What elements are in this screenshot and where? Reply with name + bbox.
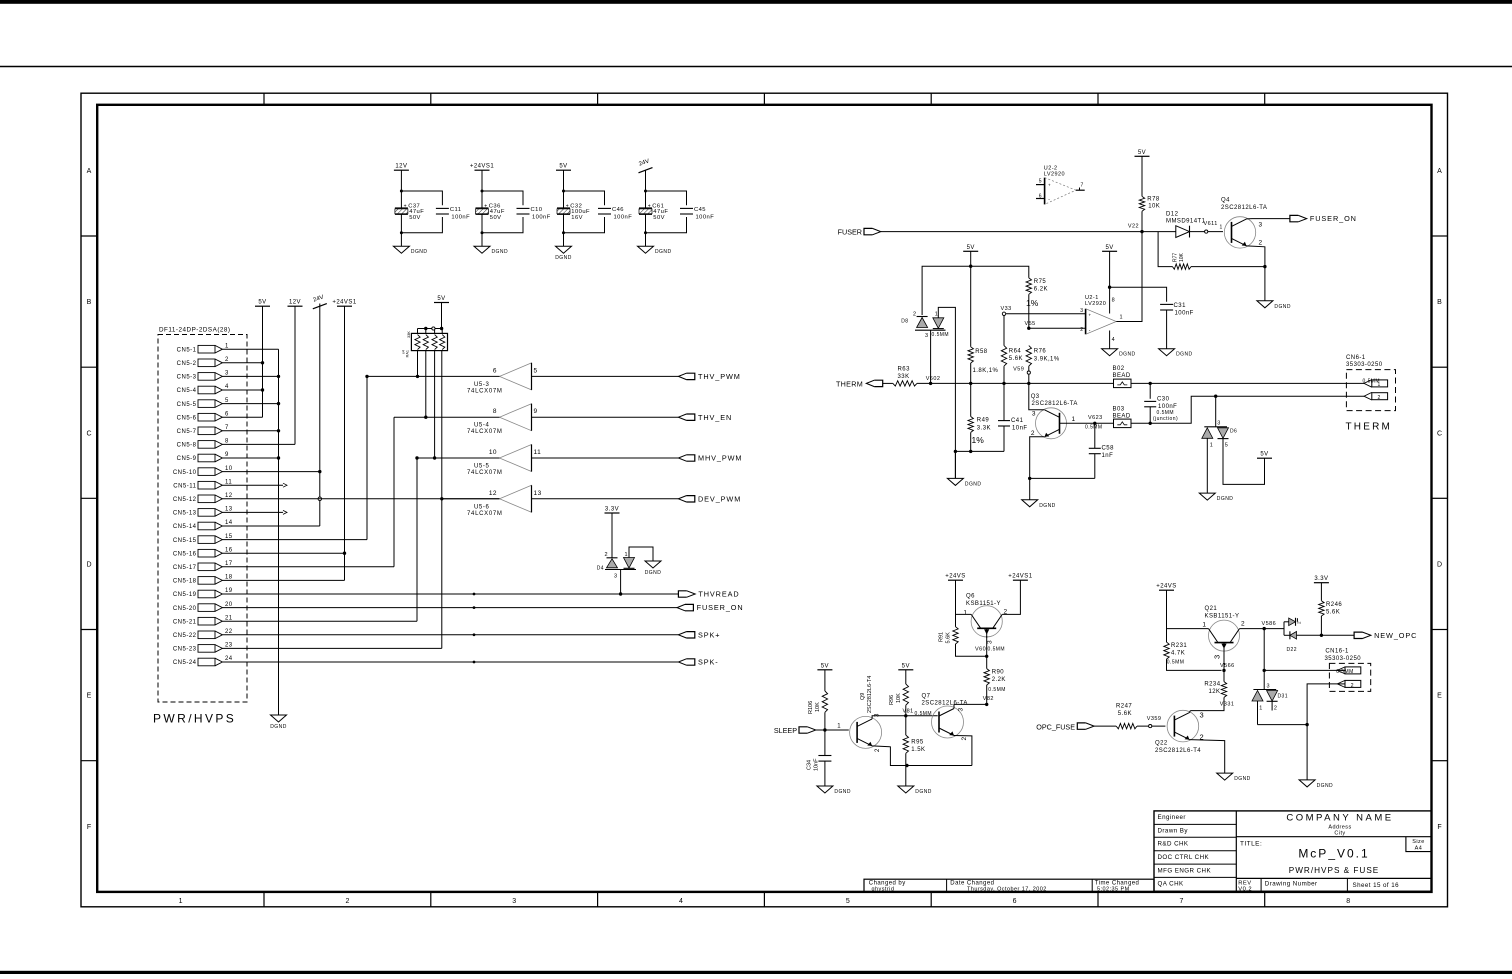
power rail +24VS1 (1008, 574, 1032, 581)
wire (Q9 emitter) (872, 746, 972, 767)
node V60 (975, 636, 1005, 669)
svg-text:R63: R63 (898, 367, 911, 373)
power rail 3.3V (605, 507, 620, 514)
svg-text:3.3K: 3.3K (977, 425, 991, 431)
power rail 5V (963, 245, 978, 252)
svg-text:D6: D6 (1230, 429, 1237, 435)
net THVREAD (222, 590, 739, 599)
wire (562, 214, 605, 246)
wire (400, 214, 443, 246)
svg-text:C: C (86, 430, 91, 437)
svg-text:2SC2812L6-TA: 2SC2812L6-TA (1032, 401, 1078, 407)
wire (922, 251, 1029, 315)
svg-text:6: 6 (1013, 898, 1017, 905)
svg-text:1%: 1% (1026, 298, 1039, 308)
wire (CN16 pin2 to ground) (1307, 684, 1337, 780)
wire (CN5-15 to U5-3 input) (222, 375, 368, 540)
svg-text:R64: R64 (1009, 349, 1022, 355)
svg-text:19: 19 (225, 588, 233, 594)
capacitor C32 100uF 16V (electrolytic) (557, 203, 590, 221)
svg-text:6: 6 (493, 367, 497, 374)
svg-text:100nF: 100nF (532, 215, 551, 221)
svg-text:5V: 5V (258, 300, 266, 306)
power rail 5V (255, 300, 270, 307)
wire (+24VS to Q6 base) (956, 580, 972, 614)
svg-text:V359: V359 (1147, 716, 1162, 722)
node (V59/Q3 junction) (1027, 382, 1030, 385)
svg-text:CN5-5: CN5-5 (177, 402, 197, 408)
svg-text:15: 15 (225, 534, 233, 540)
wire (Q9 collector to V81) (872, 716, 938, 719)
svg-text:1: 1 (179, 898, 183, 905)
wire (400, 170, 443, 208)
ground DGND (898, 766, 932, 796)
op-amp U2-1 LV2920 (1080, 251, 1123, 348)
resistor R76 3.9K 1% (1026, 346, 1060, 371)
wire (Q3 emitter to ground) (1028, 437, 1095, 500)
svg-text:3.3V: 3.3V (1314, 576, 1328, 582)
resistor R234 12K (1190, 681, 1226, 710)
node V331 (1220, 702, 1235, 708)
svg-text:LV2920: LV2920 (1085, 301, 1106, 307)
net SLEEP (774, 724, 849, 736)
resistor R106 10K (808, 670, 828, 730)
connector CN5 pin CN5-5 (pin 5) (177, 398, 229, 408)
svg-text:3: 3 (1200, 711, 1204, 720)
resistor R77 10K (1158, 232, 1265, 270)
svg-text:R90: R90 (992, 670, 1005, 676)
connector CN5 pin CN5-10 (pin 10) (173, 466, 233, 476)
node (R64/C41 junction) (1002, 382, 1005, 385)
svg-text:R106: R106 (808, 701, 814, 714)
svg-text:DGND: DGND (555, 255, 572, 261)
svg-text:SPK+: SPK+ (698, 630, 720, 639)
svg-text:A: A (1437, 168, 1442, 175)
diode D22 (dual) (1284, 618, 1354, 653)
resistor R75 6.2K 1% (1026, 278, 1048, 328)
wire (1142, 231, 1176, 233)
svg-text:5.6K: 5.6K (1326, 610, 1340, 616)
ground DGND (1022, 500, 1056, 509)
svg-text:2SC2812L6-T4: 2SC2812L6-T4 (1155, 748, 1201, 754)
svg-text:D22: D22 (1287, 647, 1298, 653)
wire (U2-1 output) (1116, 232, 1142, 322)
svg-text:QA CHK: QA CHK (1158, 881, 1185, 888)
connector CN5 pin CN5-15 (pin 15) (173, 534, 233, 544)
diode D31 (dual) (1252, 683, 1288, 711)
wire 5V bus (222, 306, 264, 417)
svg-text:V55: V55 (1025, 321, 1036, 327)
svg-text:12V: 12V (395, 164, 407, 170)
connector CN5 pin CN5-17 (pin 17) (173, 561, 233, 571)
svg-text:B03: B03 (1113, 407, 1125, 413)
capacitor C41 10nF (998, 383, 1027, 451)
ground DGND (1102, 349, 1136, 358)
wire (481, 170, 524, 208)
title block (1154, 811, 1432, 892)
resistor network RA1 (402, 303, 448, 460)
svg-text:+: + (1048, 182, 1051, 187)
svg-text:5: 5 (225, 398, 229, 404)
svg-text:U5-6: U5-6 (474, 504, 489, 510)
transistor Q9 2SC2812L6-T4 (850, 676, 882, 752)
svg-text:CN5-8: CN5-8 (177, 443, 197, 449)
svg-text:100nF: 100nF (451, 215, 470, 221)
connector CN5 pin CN5-20 (pin 20) (173, 602, 233, 612)
resistor R78 10K (1139, 156, 1160, 231)
svg-text:DGND: DGND (270, 724, 287, 730)
svg-text:1: 1 (1120, 315, 1124, 321)
svg-text:100nF: 100nF (614, 215, 633, 221)
svg-text:COMPANY NAME: COMPANY NAME (1286, 813, 1393, 824)
svg-text:7: 7 (225, 425, 229, 431)
svg-text:10K: 10K (815, 702, 821, 712)
svg-text:20: 20 (225, 602, 233, 608)
svg-text:0.5MM: 0.5MM (1167, 660, 1185, 666)
wire (1167, 590, 1209, 642)
connector CN5 pin CN5-3 (pin 3) (177, 371, 229, 381)
svg-text:6: 6 (225, 411, 229, 417)
svg-text:Thursday, October 17, 2002: Thursday, October 17, 2002 (967, 887, 1047, 893)
connector CN5 DF11-24DP-2DSA(28) (158, 327, 247, 703)
transistor Q21 KSB1151-Y (1202, 606, 1245, 659)
svg-text:CN5-7: CN5-7 (177, 429, 197, 435)
svg-text:Q9: Q9 (860, 693, 866, 700)
svg-text:City: City (1334, 830, 1345, 836)
svg-text:5: 5 (1225, 443, 1229, 449)
svg-text:CN5-9: CN5-9 (177, 456, 197, 462)
node V81 (903, 708, 933, 717)
svg-text:5:02:35 PM: 5:02:35 PM (1097, 887, 1130, 893)
svg-text:CN5-22: CN5-22 (173, 633, 197, 639)
connector CN6-1 35303-0250 (1346, 355, 1396, 433)
svg-text:DGND: DGND (1217, 496, 1234, 502)
connector CN5 pin CN5-1 (pin 1) (177, 343, 229, 353)
svg-text:U5-3: U5-3 (474, 382, 489, 388)
svg-text:1: 1 (963, 610, 967, 617)
svg-text:CN5-16: CN5-16 (173, 551, 197, 557)
svg-text:KSB1151-Y: KSB1151-Y (1205, 614, 1240, 620)
net FUSER_ON (1290, 214, 1357, 223)
svg-text:C: C (1437, 430, 1442, 437)
node V359 (1147, 716, 1162, 728)
svg-text:2: 2 (913, 311, 917, 317)
connector CN5 pin CN5-7 (pin 7) (177, 425, 229, 435)
svg-text:B: B (1437, 299, 1442, 306)
power rail 5V (556, 164, 571, 171)
ground DGND (474, 246, 508, 255)
svg-text:33K: 33K (898, 374, 910, 380)
svg-text:V566: V566 (1220, 663, 1235, 669)
svg-text:V33: V33 (1001, 306, 1012, 312)
svg-text:2: 2 (961, 737, 968, 741)
node V602 (926, 376, 941, 385)
power rail 24V (638, 159, 652, 173)
power rail 3.3V (1314, 576, 1329, 583)
connector CN5 pin CN5-16 (pin 16) (173, 547, 233, 557)
svg-text:C58: C58 (1102, 446, 1115, 452)
node V59 (1013, 366, 1030, 383)
wire (367, 375, 500, 377)
node V611 (1190, 221, 1224, 233)
svg-text:V623: V623 (1088, 415, 1103, 421)
capacitor C58 1nF (1089, 423, 1114, 478)
revision strip (864, 879, 1154, 893)
connector CN16-1 35303-0250 (1325, 648, 1371, 691)
svg-text:5V: 5V (1260, 452, 1268, 458)
svg-text:V611: V611 (1204, 221, 1218, 227)
connector CN5 pin CN5-18 (pin 18) (173, 575, 233, 585)
wire (644, 214, 687, 246)
svg-text:MFG ENGR CHK: MFG ENGR CHK (1158, 867, 1212, 874)
connector CN5 pin CN5-23 (pin 23) (173, 643, 233, 653)
svg-text:5V: 5V (1138, 150, 1146, 156)
svg-text:BEAD: BEAD (1113, 414, 1131, 420)
svg-text:F: F (87, 824, 91, 831)
wire (Q3 base / V623) (1060, 422, 1114, 424)
op-amp U2-2 LV2920 (spare) (1036, 166, 1085, 205)
wire (CN5-23 to U5-6 input / RA1) (222, 351, 443, 649)
svg-text:1: 1 (935, 311, 939, 317)
svg-text:V331: V331 (1220, 702, 1235, 708)
svg-text:3.3V: 3.3V (605, 507, 619, 513)
svg-text:3.9K,1%: 3.9K,1% (1034, 357, 1060, 363)
svg-text:DGND: DGND (655, 249, 672, 255)
wire 24V bus (222, 304, 321, 527)
svg-text:R&D CHK: R&D CHK (1158, 841, 1189, 848)
svg-text:6.2K: 6.2K (1034, 286, 1048, 292)
svg-text:Q21: Q21 (1205, 606, 1218, 612)
svg-text:23: 23 (225, 643, 233, 649)
power rail 5V (1257, 452, 1272, 459)
wire (621, 547, 653, 594)
svg-text:10nF: 10nF (1012, 426, 1027, 432)
buffer U5-6 74LCX07M (pins 12/13) (467, 485, 542, 517)
wire (D31 pin1) (1258, 701, 1309, 726)
svg-text:5.6K: 5.6K (946, 632, 952, 644)
ground DGND (638, 246, 672, 255)
ground DGND (1199, 493, 1233, 502)
svg-text:FUSER_ON: FUSER_ON (1310, 214, 1357, 223)
svg-text:R95: R95 (911, 740, 924, 746)
connector CN5 pin CN5-19 (pin 19) (173, 588, 233, 598)
connector CN5 pin CN5-8 (pin 8) (177, 439, 229, 449)
svg-text:2: 2 (1378, 395, 1381, 401)
svg-text:CN5-3: CN5-3 (177, 375, 197, 381)
svg-text:R58: R58 (975, 349, 988, 355)
svg-text:2SC2812L6-TA: 2SC2812L6-TA (1221, 205, 1267, 211)
svg-text:DF11-24DP-2DSA(28): DF11-24DP-2DSA(28) (159, 327, 231, 334)
wire (D6 pin5 to 5V) (1223, 439, 1265, 485)
node V82 (983, 696, 994, 706)
svg-text:C30: C30 (1157, 397, 1170, 403)
svg-text:Q22: Q22 (1155, 740, 1168, 746)
svg-text:Q6: Q6 (966, 594, 975, 600)
capacitor C34 10nF (807, 730, 832, 786)
svg-text:MMSD914T1: MMSD914T1 (1166, 218, 1206, 224)
svg-text:2SC2812L6-T4: 2SC2812L6-T4 (867, 676, 873, 713)
node V586 (1262, 621, 1277, 631)
power rail 5V (RA1) (434, 296, 449, 303)
svg-text:Engineer: Engineer (1158, 814, 1186, 821)
svg-text:V82: V82 (983, 696, 994, 702)
svg-text:3: 3 (225, 371, 229, 377)
svg-text:3: 3 (614, 574, 618, 580)
wire (394, 416, 500, 418)
wire (1108, 286, 1167, 302)
connector CN5 pin CN5-9 (pin 9) (177, 452, 229, 462)
svg-text:C45: C45 (694, 207, 706, 213)
svg-text:4.7K: 4.7K (1171, 650, 1185, 656)
svg-text:2: 2 (1351, 683, 1354, 689)
connector CN5 pin CN5-6 (pin 6) (177, 411, 229, 421)
svg-text:PWR/HVPS & FUSE: PWR/HVPS & FUSE (1289, 866, 1380, 875)
svg-text:V59: V59 (1013, 366, 1024, 372)
svg-text:BEAD: BEAD (1113, 373, 1131, 379)
wire (644, 170, 687, 208)
svg-text:9: 9 (534, 408, 538, 415)
svg-text:4: 4 (679, 898, 683, 905)
svg-text:22: 22 (225, 629, 233, 635)
svg-text:+: + (1089, 313, 1092, 318)
svg-text:0.5MM: 0.5MM (1085, 425, 1103, 431)
transistor Q7 2SC2812L6-TA (922, 693, 969, 740)
wire (562, 170, 605, 208)
svg-text:0.5MM: 0.5MM (1336, 669, 1354, 675)
svg-text:10: 10 (489, 449, 497, 456)
wire (Q3 collector) (1029, 383, 1044, 409)
svg-text:Size: Size (1412, 839, 1425, 845)
svg-text:D12: D12 (1166, 212, 1179, 218)
ground DGND (1257, 301, 1291, 310)
wire 12V bus (222, 306, 295, 444)
capacitor C36 47uF 50V (electrolytic) (476, 203, 505, 221)
svg-text:2: 2 (1031, 430, 1035, 437)
capacitor C46 100nF (598, 207, 632, 220)
svg-text:+24VS1: +24VS1 (470, 164, 494, 170)
wire (D6 pin1 to ground) (1206, 438, 1208, 493)
svg-text:12: 12 (225, 493, 233, 499)
svg-text:DGND: DGND (492, 249, 509, 255)
wire (Q6 collector to +24VS1) (1002, 580, 1020, 614)
svg-text:5: 5 (534, 367, 538, 374)
svg-text:R231: R231 (1171, 643, 1187, 649)
svg-text:4: 4 (225, 384, 229, 390)
svg-text:R78: R78 (1147, 197, 1160, 203)
wire (CN5-21 to U5-5 input) (222, 456, 418, 621)
svg-text:12K: 12K (1208, 689, 1220, 695)
svg-text:1: 1 (1378, 382, 1381, 388)
svg-text:CN5-13: CN5-13 (173, 511, 197, 517)
svg-text:R234: R234 (1204, 681, 1220, 687)
power rail +24VS1 (332, 300, 356, 307)
diode D12 MMSD914T1 (1166, 212, 1206, 238)
svg-text:R91: R91 (939, 632, 945, 642)
svg-text:1.8K,1%: 1.8K,1% (973, 368, 999, 374)
connector CN5 pin CN5-12 (pin 12) (173, 493, 233, 503)
svg-text:V0.2: V0.2 (1238, 886, 1252, 892)
svg-text:74LCX07M: 74LCX07M (467, 388, 503, 394)
svg-text:0.5MM: 0.5MM (932, 332, 950, 338)
label PWR/HVPS (153, 712, 236, 726)
svg-text:7: 7 (1179, 898, 1183, 905)
svg-text:1: 1 (1072, 416, 1076, 423)
svg-text:+: + (404, 203, 407, 209)
svg-text:5V: 5V (967, 245, 975, 251)
svg-text:+: + (648, 203, 651, 209)
svg-text:Drawing Number: Drawing Number (1265, 881, 1318, 888)
ground DGND (645, 561, 662, 576)
resistor R96 10K (889, 670, 909, 716)
wire (Q7 emitter) (954, 736, 972, 766)
svg-text:74LCX07M: 74LCX07M (467, 429, 503, 435)
svg-text:NEW_OPC: NEW_OPC (1374, 631, 1417, 640)
svg-text:THV_EN: THV_EN (698, 413, 732, 422)
svg-text:3: 3 (1032, 411, 1036, 418)
svg-text:4: 4 (1112, 337, 1116, 343)
svg-text:10K: 10K (1179, 252, 1185, 262)
capacitor C30 100nF (1144, 382, 1178, 425)
svg-text:2: 2 (1241, 621, 1245, 628)
svg-text:THV_PWM: THV_PWM (698, 372, 741, 381)
svg-text:V81: V81 (903, 708, 914, 714)
svg-text:DOC CTRL CHK: DOC CTRL CHK (1158, 854, 1210, 861)
net THV_PWM (532, 372, 741, 381)
transistor Q22 2SC2812L6-T4 (1155, 710, 1204, 754)
node V22 (1128, 224, 1144, 234)
svg-text:1: 1 (1220, 225, 1223, 231)
diode D4 (dual) (597, 552, 636, 580)
svg-text:CN5-11: CN5-11 (173, 483, 196, 489)
svg-text:3: 3 (987, 640, 994, 644)
svg-text:1: 1 (1202, 621, 1206, 628)
power rail 12V (394, 164, 409, 171)
svg-text:8: 8 (1112, 298, 1116, 304)
svg-text:R77: R77 (1173, 253, 1179, 262)
svg-text:C41: C41 (1011, 418, 1024, 424)
transistor Q6 KSB1151-Y (963, 594, 1007, 645)
svg-text:1: 1 (225, 343, 229, 349)
svg-text:CN5-10: CN5-10 (173, 470, 197, 476)
svg-text:1.5K: 1.5K (911, 747, 925, 753)
wire (955, 450, 1004, 452)
ground DGND (1299, 780, 1333, 789)
svg-text:Drawn By: Drawn By (1158, 828, 1189, 835)
buffer U5-5 74LCX07M (pins 10/11) (467, 445, 541, 477)
svg-text:D4: D4 (597, 566, 604, 572)
svg-text:CN5-20: CN5-20 (173, 606, 197, 612)
node V33 (1001, 306, 1086, 315)
resistor R95 1.5K (903, 716, 925, 766)
svg-text:12V: 12V (289, 300, 301, 306)
svg-text:9: 9 (225, 452, 229, 458)
svg-text:2: 2 (1259, 240, 1263, 247)
ground DGND (817, 786, 851, 795)
ground DGND (1217, 773, 1251, 782)
svg-text:DGND: DGND (915, 789, 932, 795)
resistor R49 3.3K 1% (968, 383, 991, 453)
resistor R58 1.8K 1% (968, 266, 999, 385)
svg-text:DGND: DGND (834, 789, 851, 795)
ferrite bead B02 (1113, 366, 1365, 388)
svg-text:8: 8 (493, 408, 497, 415)
svg-text:CN5-24: CN5-24 (173, 660, 197, 666)
svg-text:E: E (87, 693, 92, 700)
svg-text:C34: C34 (807, 760, 813, 770)
svg-text:-: - (1089, 328, 1091, 334)
power rail 24V (313, 295, 327, 309)
svg-text:DGND: DGND (411, 249, 428, 255)
